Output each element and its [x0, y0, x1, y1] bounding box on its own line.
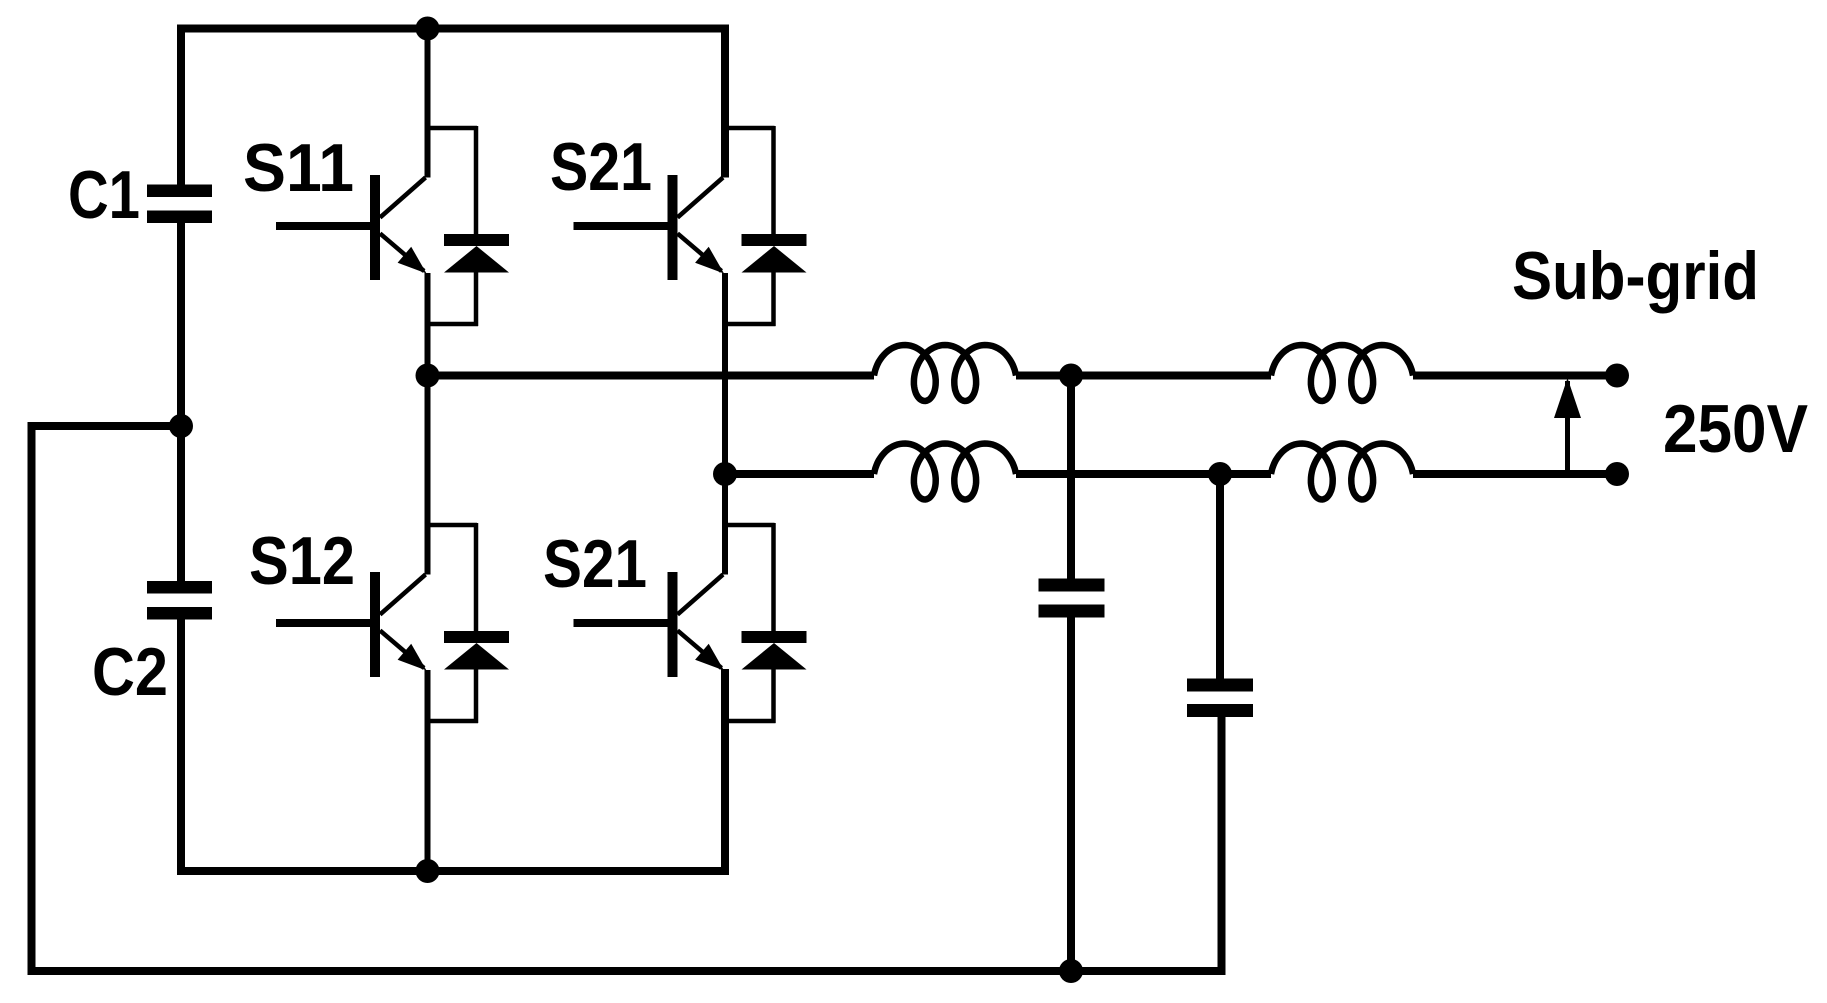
- svg-text:Sub-grid: Sub-grid: [1512, 238, 1759, 314]
- node Cf2 top junction: [1208, 462, 1232, 486]
- transistor S11 emitter diagonal: [380, 234, 424, 272]
- svg-text:S12: S12: [249, 523, 355, 599]
- transistor S22 collector diagonal: [678, 575, 724, 615]
- wire D11 bottom jog: [428, 322, 479, 327]
- wire S11 collector: [425, 29, 431, 178]
- wire between L1a and L2a: [1016, 372, 1271, 380]
- voltage arrow shaft: [1565, 381, 1570, 474]
- transistor S11 bar: [370, 175, 380, 280]
- transistor S21 collector diagonal: [678, 178, 724, 218]
- wire D21 top jog: [725, 126, 775, 131]
- transistor S22 base lead: [574, 619, 670, 627]
- diode D21 cathode bar: [742, 234, 807, 246]
- diode D12 lower lead: [474, 669, 479, 723]
- node B junction: [713, 462, 737, 486]
- wire L2a to upper terminal: [1413, 372, 1617, 380]
- diode D12: [428, 523, 510, 723]
- transistor S21 emitter arrowhead: [695, 247, 724, 274]
- capacitor C2 bottom plate: [147, 607, 212, 620]
- diode D21: [725, 126, 807, 326]
- transistor S12 collector diagonal: [380, 575, 426, 615]
- transistor S12 base lead: [276, 619, 372, 627]
- wire D22 bottom jog: [725, 719, 776, 724]
- node A junction: [416, 364, 440, 388]
- wire L2b to lower terminal: [1413, 470, 1617, 478]
- transistor S21 emitter diagonal: [678, 234, 722, 272]
- transistor S11 base lead: [276, 222, 372, 230]
- transistor S22 emitter diagonal: [678, 631, 722, 669]
- capacitor Cf2 top lead: [1216, 474, 1224, 679]
- diode D22 anode triangle: [742, 643, 807, 670]
- svg-text:250V: 250V: [1663, 391, 1808, 467]
- capacitor C1 top plate: [147, 185, 212, 198]
- node bottom wire junction: [1059, 959, 1083, 983]
- node left stub junction: [169, 414, 193, 438]
- capacitor Cf1 bottom plate: [1039, 605, 1105, 618]
- transistor S22 bar: [668, 572, 678, 677]
- wire between L1b and L2b: [1016, 470, 1271, 478]
- diode D11 lower lead: [474, 272, 479, 326]
- inductor L2a: [1271, 345, 1413, 401]
- transistor S11: [276, 175, 427, 280]
- terminal lower dot: [1605, 462, 1629, 486]
- diode D12 upper lead: [474, 523, 479, 631]
- capacitor C1 bottom plate: [147, 211, 212, 224]
- transistor S22 emitter arrowhead: [695, 644, 724, 671]
- capacitor Cf1 bottom lead: [1067, 618, 1075, 972]
- wire S21 emitter crossing node A rail down to node B: [722, 273, 728, 474]
- svg-text:S21: S21: [543, 526, 647, 602]
- svg-text:C1: C1: [68, 157, 140, 233]
- wire node A rail to first inductor: [428, 372, 875, 380]
- wire D21 bottom jog: [725, 322, 776, 327]
- diode D11 upper lead: [474, 126, 479, 234]
- diode D22 upper lead: [771, 523, 776, 631]
- wire S22 collector from node B: [722, 474, 728, 575]
- svg-text:S21: S21: [550, 129, 652, 205]
- diode D22 cathode bar: [742, 631, 807, 643]
- diode D21 upper lead: [771, 126, 776, 234]
- wire S12 emitter to bottom rail: [425, 670, 431, 871]
- wire left vertical below C2 plus bottom rail plus right leg rise: [181, 620, 725, 872]
- capacitor Cf2 top plate: [1187, 679, 1253, 692]
- transistor S21 base lead: [574, 222, 670, 230]
- wire D12 top jog: [428, 523, 478, 528]
- transistor S11 collector diagonal: [380, 178, 426, 218]
- node top rail junction: [416, 17, 440, 41]
- wire S12 collector from node A: [425, 375, 431, 575]
- terminal upper dot: [1605, 364, 1629, 388]
- diode D11 cathode bar: [444, 234, 509, 246]
- svg-text:C2: C2: [92, 634, 168, 710]
- transistor S12: [276, 572, 427, 677]
- diode D21 anode triangle: [742, 246, 807, 273]
- diode D22 lower lead: [771, 669, 776, 723]
- wire S22 emitter to bottom rail: [722, 670, 728, 871]
- transistor S11 emitter arrowhead: [398, 247, 427, 274]
- capacitor Cf2 bottom plate: [1187, 704, 1253, 717]
- capacitor C2 top plate: [147, 581, 212, 594]
- diode D22: [725, 523, 807, 723]
- wire node B rail to lower first inductor: [725, 470, 874, 478]
- diode D12 anode triangle: [444, 643, 509, 670]
- node bottom rail junction: [416, 859, 440, 883]
- wire S11 emitter to node A: [425, 273, 431, 375]
- wire S21 collector: [722, 29, 728, 178]
- inductor L2b: [1271, 444, 1413, 500]
- wire left vertical below C1: [177, 223, 185, 581]
- wire left stub, left edge drop, long bottom wire, Cf2 riser: [32, 426, 1222, 971]
- wire top rail with left and right corner drops: [181, 29, 725, 185]
- diode D11 anode triangle: [444, 246, 509, 273]
- transistor S12 emitter arrowhead: [398, 644, 427, 671]
- inductor L1b: [874, 444, 1016, 500]
- diode D12 cathode bar: [444, 631, 509, 643]
- inductor L1a: [874, 345, 1016, 401]
- transistor S12 bar: [370, 572, 380, 677]
- svg-text:S11: S11: [243, 130, 354, 206]
- wire D12 bottom jog: [428, 719, 479, 724]
- wire D22 top jog: [725, 523, 775, 528]
- diode D21 lower lead: [771, 272, 776, 326]
- transistor S22 (labelled S21): [574, 572, 725, 677]
- voltage arrowhead: [1554, 378, 1581, 418]
- capacitor Cf1 top plate: [1039, 579, 1105, 592]
- capacitor Cf1 top lead: [1067, 376, 1075, 579]
- diode D11: [428, 126, 510, 326]
- wire D11 top jog: [428, 126, 478, 131]
- node Cf1 top junction: [1059, 364, 1083, 388]
- transistor S21 bar: [668, 175, 678, 280]
- transistor S21 top: [574, 175, 725, 280]
- transistor S12 emitter diagonal: [380, 631, 424, 669]
